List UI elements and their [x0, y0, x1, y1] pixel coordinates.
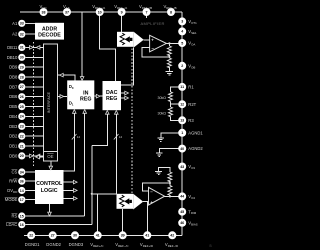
svg-text:38: 38: [42, 10, 46, 14]
pin 12 R2T: [178, 100, 186, 108]
resistor zigzag: [169, 107, 173, 117]
wire right boundary: [181, 12, 183, 235]
wire control down: [49, 204, 51, 212]
svg-text:41: 41: [145, 234, 149, 238]
pin 24 DB4: [18, 113, 25, 120]
pin 8 VREF-/B: [167, 8, 175, 16]
wire opamp1 out: [166, 42, 182, 44]
DAC 2 (bottom): [117, 194, 144, 210]
resistor zigzag: [167, 46, 171, 56]
arrow DAC REG load up 2: [115, 111, 119, 115]
resistor chain R1 R2 R3: [171, 87, 179, 92]
arrow IN REG load up 2: [83, 110, 87, 114]
pin 34 CS: [18, 168, 25, 175]
arrow DAC REG load up 1: [106, 111, 110, 115]
svg-text:15: 15: [20, 214, 24, 218]
svg-text:A1: A1: [12, 21, 18, 26]
pin 23 DB3: [18, 123, 25, 130]
pin 31 DB11: [18, 44, 25, 51]
wire DAC REG load 2: [115, 112, 117, 193]
wire DAC REG out arrows: [121, 92, 125, 94]
DAC 1 (top): [117, 32, 144, 48]
svg-text:4: 4: [181, 30, 183, 34]
wire vref-A down: [121, 12, 123, 32]
svg-text:33: 33: [20, 22, 24, 26]
wire addr enable down: [81, 12, 83, 80]
pin 41 VREF+/D: [143, 231, 151, 239]
svg-text:43: 43: [180, 165, 184, 169]
arrow inreg-dacreg right: [96, 94, 100, 98]
pin 2 VOB: [178, 62, 186, 70]
svg-text:+: +: [150, 200, 153, 205]
wire vref+C up: [97, 194, 99, 232]
svg-text:RS: RS: [11, 214, 17, 219]
block DAC REG: [103, 81, 122, 110]
svg-text:LOGIC: LOGIC: [41, 188, 58, 194]
pin 1 AGND1: [178, 129, 186, 137]
wire DAC REG top right: [121, 48, 134, 86]
svg-text:DB5: DB5: [9, 104, 18, 109]
wire bus down left: [91, 146, 93, 225]
pin 42 VREF-/D: [168, 231, 176, 239]
wire opamp1 minus loop: [142, 47, 169, 57]
svg-text:CONTROL: CONTROL: [36, 181, 63, 187]
svg-text:DB11: DB11: [7, 45, 18, 50]
ground 1: [166, 71, 174, 73]
svg-text:DB1: DB1: [9, 144, 18, 149]
resistor divider 2: [169, 181, 171, 186]
pin 25 DB5: [18, 103, 25, 110]
junction dots: [168, 42, 170, 44]
dashed line left: [32, 42, 34, 166]
svg-text:30kΩ: 30kΩ: [158, 96, 167, 100]
wire A1: [25, 22, 35, 24]
ground AGND2: [156, 152, 163, 154]
PINS right column: [178, 17, 203, 226]
wire IN REG to DAC REG: [94, 95, 102, 97]
svg-text:42: 42: [170, 234, 174, 238]
svg-text:12: 12: [77, 135, 81, 139]
svg-text:29: 29: [20, 65, 24, 69]
svg-text:7: 7: [146, 10, 148, 14]
svg-text:−: −: [151, 46, 154, 51]
svg-text:DB6: DB6: [9, 94, 18, 99]
svg-text:+: +: [151, 38, 154, 43]
svg-text:B: B: [210, 244, 212, 248]
pin 17 MODE: [18, 196, 25, 203]
bus slash 12 on DAC2 line: [114, 134, 119, 140]
wire IN REG load 1: [64, 112, 75, 172]
svg-text:R2T: R2T: [188, 102, 196, 107]
pin 11 R1: [178, 83, 186, 91]
svg-text:28: 28: [20, 75, 24, 79]
wire AGND2: [159, 149, 179, 153]
svg-text:AGND2: AGND2: [188, 146, 203, 151]
pin 45 TRIM: [178, 208, 186, 216]
PINS left column: [5, 20, 26, 229]
bus slash 12 on IN REG line: [72, 134, 77, 140]
block IN REG: [67, 80, 94, 109]
svg-text:DB3: DB3: [9, 124, 18, 129]
svg-text:DB8: DB8: [9, 75, 18, 80]
svg-text:DB4: DB4: [9, 114, 18, 119]
svg-text:36: 36: [20, 180, 24, 184]
svg-text:13: 13: [180, 119, 184, 123]
svg-text:30kΩ: 30kΩ: [158, 111, 167, 115]
pin 22 DB2: [18, 133, 25, 140]
svg-text:27: 27: [51, 234, 55, 238]
svg-text:REG: REG: [80, 96, 91, 102]
ground DAC2 top: [155, 170, 162, 172]
svg-text:DB7: DB7: [9, 84, 18, 89]
pin 5 VOA: [178, 39, 186, 47]
arrow DB11 right: [30, 46, 34, 50]
svg-text:25: 25: [20, 105, 24, 109]
svg-text:DB2: DB2: [9, 134, 18, 139]
wire opamp2 minus loop: [142, 183, 170, 191]
svg-text:AMPLIFIER: AMPLIFIER: [141, 21, 165, 26]
pin 38 VDD: [40, 8, 48, 16]
pin 32 A2: [18, 31, 25, 38]
pin 3 VOT1: [178, 17, 186, 25]
arrow DB0 left: [36, 154, 40, 158]
wire control inputs: [25, 171, 35, 173]
svg-text:37: 37: [65, 10, 69, 14]
wire DB bus rows: [25, 46, 43, 48]
pin 30 DGND3: [71, 231, 79, 239]
svg-text:30: 30: [20, 56, 24, 60]
svg-text:32: 32: [20, 33, 24, 37]
svg-text:34: 34: [20, 170, 24, 174]
svg-text:11: 11: [180, 85, 184, 89]
pin 28 DB8: [18, 73, 25, 80]
pin 27 DGND2: [49, 231, 57, 239]
pin 46 VBIAS: [178, 219, 186, 227]
PINS bottom row: [25, 231, 178, 248]
svg-text:45: 45: [180, 210, 184, 214]
arrow DB0 right: [30, 154, 34, 158]
pin 37 VSS: [63, 8, 71, 16]
wire DAC REG load 1: [92, 112, 108, 145]
svg-text:MODE: MODE: [5, 197, 18, 202]
svg-text:−: −: [150, 190, 153, 195]
wire AGND1: [161, 133, 179, 138]
svg-text:10: 10: [98, 10, 102, 14]
svg-text:16: 16: [20, 223, 24, 227]
arrow addr enable down: [80, 77, 84, 81]
svg-text:INTERFACE: INTERFACE: [47, 91, 51, 113]
svg-text:39: 39: [121, 234, 125, 238]
pin 39 VREF-/C: [119, 231, 127, 239]
wire vref+B stub: [146, 12, 148, 18]
svg-text:1: 1: [181, 131, 183, 135]
pin 4 VSE1: [178, 27, 186, 35]
arrow readback left: [60, 73, 64, 77]
wire control out rows: [64, 181, 74, 183]
pin 40 AGND2: [178, 145, 186, 153]
svg-text:CS: CS: [11, 170, 17, 175]
svg-text:R3: R3: [188, 118, 194, 123]
wire oe to control: [50, 161, 52, 166]
svg-text:26: 26: [20, 95, 24, 99]
svg-text:REG: REG: [106, 96, 117, 102]
svg-text:ADDR: ADDR: [42, 26, 57, 32]
wire IN REG load 2: [84, 112, 86, 217]
svg-text:17: 17: [20, 198, 24, 202]
svg-text:22: 22: [20, 134, 24, 138]
arrow dacreg out right 1: [125, 91, 129, 95]
svg-text:12: 12: [180, 103, 184, 107]
pin 44 VO4: [178, 192, 186, 200]
wire A2: [25, 33, 35, 35]
svg-text:2: 2: [181, 64, 183, 68]
dashed line channel bus: [131, 49, 133, 194]
block ADDR DECODE: [35, 23, 64, 40]
wire top boundary: [20, 11, 182, 13]
block interface register: [43, 44, 57, 161]
svg-text:8: 8: [170, 10, 172, 14]
svg-text:9: 9: [121, 10, 123, 14]
pin 27 DB7: [18, 83, 25, 90]
wire write to IN REG: [58, 95, 68, 97]
pin 36 R/W: [18, 178, 25, 185]
svg-text:AGND1: AGND1: [188, 130, 203, 135]
ground AGND1: [157, 137, 164, 139]
op-amp A2 (bottom): [149, 187, 165, 205]
svg-text:3: 3: [181, 20, 183, 24]
svg-text:14: 14: [20, 189, 24, 193]
pin 20 DB0: [18, 152, 25, 159]
arrow IN REG load up 1: [73, 110, 77, 114]
svg-text:DGND2: DGND2: [46, 242, 61, 247]
svg-text:DB0: DB0: [9, 153, 18, 158]
pin 22 DGND1: [27, 231, 35, 239]
resistor zigzag: [168, 172, 172, 182]
pin 30 DB10: [18, 54, 25, 61]
svg-text:DGND1: DGND1: [25, 242, 40, 247]
svg-text:LDAC: LDAC: [6, 222, 17, 227]
resistor divider 1: [168, 43, 170, 46]
wire dac2 to opamp2: [143, 201, 148, 203]
arrow write right: [60, 95, 64, 99]
svg-text:DGND3: DGND3: [69, 242, 84, 247]
arrow oe down: [49, 166, 53, 170]
svg-text:R/W: R/W: [9, 179, 17, 184]
arrow DB11 left: [36, 46, 40, 50]
wire readback: [58, 75, 76, 80]
wire vref+D up: [146, 202, 148, 232]
svg-text:41: 41: [96, 234, 100, 238]
pin 33 A1: [18, 20, 25, 27]
pin 26 DB6: [18, 93, 25, 100]
pin 7 VREF+/B: [143, 8, 151, 16]
svg-text:24: 24: [20, 115, 24, 119]
svg-text:R1: R1: [188, 85, 194, 90]
block CONTROL LOGIC: [35, 170, 64, 204]
wire to DAC2: [92, 193, 117, 195]
pin 29 DB9: [18, 64, 25, 71]
resistor zigzag: [168, 186, 172, 196]
wire dac1 to opamp: [144, 39, 150, 41]
pin 43 VO3: [178, 163, 186, 171]
svg-text:DB10: DB10: [7, 55, 18, 60]
svg-text:DECODE: DECODE: [38, 33, 61, 39]
svg-text:23: 23: [20, 125, 24, 129]
arrow control down: [48, 212, 52, 216]
pin 21 DB1: [18, 142, 25, 149]
svg-text:27: 27: [20, 85, 24, 89]
svg-text:20: 20: [20, 154, 24, 158]
svg-text:21: 21: [20, 144, 24, 148]
pin 13 R3: [178, 116, 186, 124]
pin 41 VREF+/C: [94, 231, 102, 239]
wire LDAC row: [25, 224, 92, 226]
arrow control out 3: [73, 197, 77, 201]
arrow control out 1: [73, 180, 77, 184]
arrow dacreg out right 2: [125, 96, 129, 100]
svg-text:31: 31: [20, 46, 24, 50]
pin 10 VREF+/A: [96, 8, 104, 16]
pin 9 VREF-/A: [118, 8, 126, 16]
wire opamp2 out: [165, 195, 183, 197]
svg-text:OE: OE: [47, 154, 53, 159]
wire RST row: [25, 215, 84, 217]
resistor zigzag: [167, 58, 171, 68]
pin 16 LDAC: [18, 221, 25, 228]
svg-text:A2: A2: [12, 32, 18, 37]
wire vref-C up: [122, 209, 124, 232]
ARROWHEADS (hollow): [30, 46, 129, 216]
arrow oe left: [36, 155, 40, 159]
resistor zigzag: [169, 92, 173, 102]
svg-text:40: 40: [180, 147, 184, 151]
PINS top row: [40, 4, 177, 16]
wire bottom boundary: [24, 234, 182, 236]
svg-text:5: 5: [181, 41, 183, 45]
svg-text:44: 44: [180, 195, 184, 199]
wire vref+A routing: [100, 12, 116, 81]
svg-text:46: 46: [180, 221, 184, 225]
op-amp A1 (top): [150, 35, 167, 52]
pin 15 RST: [18, 212, 25, 219]
pin 14 DVDD: [18, 187, 25, 194]
arrow control out 2: [73, 189, 77, 193]
svg-text:30: 30: [73, 234, 77, 238]
svg-text:DB9: DB9: [9, 65, 18, 70]
wire oe left arrow: [38, 156, 43, 158]
svg-text:22: 22: [29, 234, 33, 238]
svg-text:12: 12: [119, 135, 123, 139]
